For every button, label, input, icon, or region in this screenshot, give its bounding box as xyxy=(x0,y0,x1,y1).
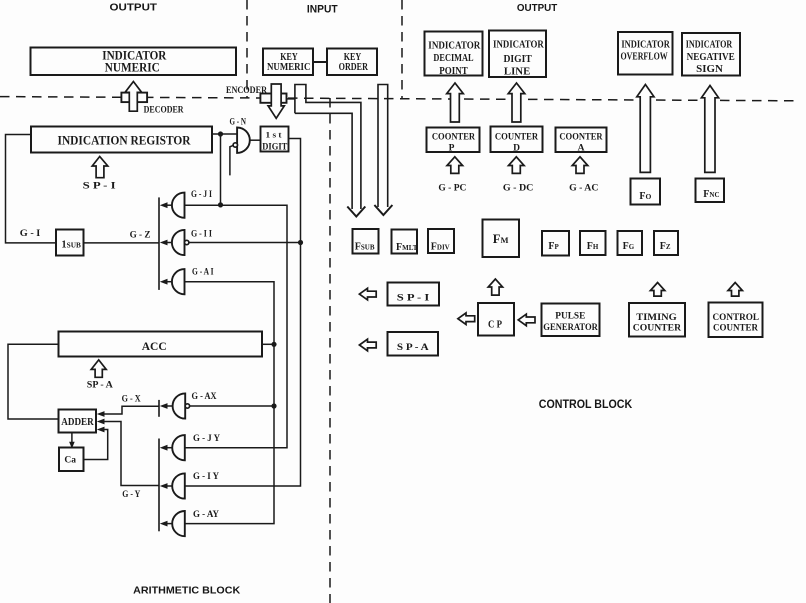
decoder arrow xyxy=(125,82,142,112)
wire KEY NUMERIC to KEY ORDER xyxy=(313,61,327,63)
box INDICATOR OVERFLOW xyxy=(618,32,673,75)
svg-text:G - J Y: G - J Y xyxy=(193,433,220,443)
box INDICATION REGISTOR xyxy=(31,127,212,153)
svg-text:S P - I: S P - I xyxy=(397,294,430,304)
svg-text:ACC: ACC xyxy=(142,339,167,353)
wire G-Z xyxy=(84,242,160,244)
bus X vertical xyxy=(158,400,160,417)
gate G-AX xyxy=(173,393,186,418)
svg-text:SP - A: SP - A xyxy=(87,380,114,390)
wire G-AI output arrow xyxy=(166,281,172,283)
svg-text:SIGN: SIGN xyxy=(696,64,724,75)
bubble G-II input xyxy=(185,240,189,244)
wire G-N output to 1st DIGIT xyxy=(250,139,261,141)
box PULSE GENERATOR xyxy=(542,304,600,337)
svg-text:INPUT: INPUT xyxy=(307,3,338,15)
box SP-I xyxy=(388,283,440,306)
svg-text:Ca: Ca xyxy=(64,455,76,465)
arrow G-DC (small hollow up) xyxy=(509,157,525,174)
svg-text:G - A I: G - A I xyxy=(192,267,214,277)
box SP-A xyxy=(388,332,439,356)
wire G-AY output arrow xyxy=(166,523,172,525)
bus I vertical xyxy=(158,197,160,290)
svg-text:FM: FM xyxy=(493,232,509,246)
svg-text:G - I: G - I xyxy=(20,228,41,238)
wire 1st DIGIT output vertical xyxy=(185,139,301,487)
svg-text:FNC: FNC xyxy=(703,189,719,200)
box KEY ORDER xyxy=(327,49,377,76)
wire G-X xyxy=(104,406,160,414)
wire register output to G-N xyxy=(212,133,237,135)
svg-text:LINE: LINE xyxy=(504,67,531,78)
box 1st DIGIT xyxy=(261,127,289,152)
svg-text:C P: C P xyxy=(488,319,502,330)
svg-text:DECIMAL: DECIMAL xyxy=(433,53,473,64)
svg-text:G - X: G - X xyxy=(122,394,141,404)
arrow counter P to indicator (hollow) xyxy=(447,83,464,122)
svg-text:P: P xyxy=(449,143,455,153)
box FSUB xyxy=(353,229,379,254)
box Ca xyxy=(59,448,84,472)
svg-text:COONTER: COONTER xyxy=(432,133,475,143)
box FMLT xyxy=(392,230,418,254)
svg-text:OVERFLOW: OVERFLOW xyxy=(621,51,668,62)
box COUNTER D xyxy=(491,127,543,153)
svg-text:INDICATOR: INDICATOR xyxy=(686,40,733,51)
svg-text:DIGIT: DIGIT xyxy=(262,143,288,153)
box FG xyxy=(618,231,643,255)
box INDICATOR NUMERIC xyxy=(31,48,237,76)
node G-II/digit xyxy=(298,240,303,245)
box COONTER A xyxy=(556,128,607,153)
stub G-N lower input xyxy=(230,146,233,176)
svg-text:NUMERIC: NUMERIC xyxy=(267,62,310,73)
encoder box xyxy=(260,94,286,103)
svg-text:G - Z: G - Z xyxy=(130,230,151,240)
node at G-JI line xyxy=(218,202,223,207)
svg-text:DIGIT: DIGIT xyxy=(503,54,532,65)
wire G-II input xyxy=(189,242,301,244)
svg-text:D: D xyxy=(513,143,520,153)
svg-text:ARITHMETIC BLOCK: ARITHMETIC BLOCK xyxy=(133,585,240,597)
svg-text:FSUB: FSUB xyxy=(355,241,375,252)
svg-text:COUNTER: COUNTER xyxy=(495,133,538,143)
wire G-II output arrow xyxy=(166,242,172,244)
dashed vertical divider center (x=330) xyxy=(329,98,331,603)
svg-text:OUTPUT: OUTPUT xyxy=(517,2,558,14)
svg-text:FG: FG xyxy=(623,241,635,252)
gate G-N xyxy=(237,128,250,153)
box KEY NUMERIC xyxy=(263,49,313,76)
wire ACC feedback to ADDER xyxy=(8,344,59,419)
box 1SUB xyxy=(56,230,84,256)
svg-text:FDIV: FDIV xyxy=(431,241,450,252)
wire Ca loop to ADDER xyxy=(84,430,108,460)
svg-text:COONTER: COONTER xyxy=(559,133,602,143)
svg-text:COUNTER: COUNTER xyxy=(713,324,758,334)
bubble G-AX input xyxy=(185,404,189,408)
arrow FNC to negative sign (long hollow) xyxy=(701,86,718,173)
arrow right of CP xyxy=(518,314,535,326)
svg-text:1 s t: 1 s t xyxy=(266,130,282,140)
node register output xyxy=(218,131,223,136)
svg-text:G - I I: G - I I xyxy=(191,228,212,238)
wire G-Y xyxy=(104,422,160,486)
gate G-AY xyxy=(172,511,185,536)
gate G-JY xyxy=(172,435,185,460)
arrow left of CP xyxy=(458,313,475,325)
box FP xyxy=(542,231,569,256)
wire G-IY output arrow xyxy=(166,485,172,487)
arrowhead FSUB xyxy=(347,207,365,217)
box FZ xyxy=(654,231,678,255)
svg-text:CONTROL BLOCK: CONTROL BLOCK xyxy=(539,399,633,411)
gate G-II xyxy=(172,230,185,255)
svg-text:G - PC: G - PC xyxy=(438,182,466,192)
arrow SP-A (up, hollow) xyxy=(91,360,106,377)
gate G-IY xyxy=(172,473,185,498)
decoder box xyxy=(121,93,147,103)
arrow G-PC (small hollow up) xyxy=(447,157,463,174)
wire G-JY output arrow xyxy=(166,447,172,449)
svg-text:TIMING: TIMING xyxy=(636,313,677,323)
wire G-JI output arrow xyxy=(166,204,172,206)
box INDICATOR DIGIT LINE xyxy=(489,31,546,78)
wire G-AX output arrow xyxy=(166,405,173,407)
box CONTROL COUNTER xyxy=(709,303,763,338)
svg-text:INDICATOR: INDICATOR xyxy=(428,40,481,51)
svg-text:DECODER: DECODER xyxy=(144,105,184,115)
arrow counter D to indicator (hollow) xyxy=(508,83,525,122)
svg-text:G - AC: G - AC xyxy=(569,182,598,192)
dashed vertical divider left (x=247) xyxy=(246,0,248,98)
node ACC right xyxy=(271,342,276,347)
dashed vertical divider right (x=402) xyxy=(401,0,403,98)
arrow SP-I (up, hollow) xyxy=(92,157,108,178)
svg-text:A: A xyxy=(578,143,585,153)
wire G-AX input xyxy=(190,405,274,407)
svg-text:G - AY: G - AY xyxy=(193,509,219,519)
box INDICATOR DECIMAL POINT xyxy=(425,32,483,76)
svg-text:S P - A: S P - A xyxy=(397,343,429,353)
gate G-AI xyxy=(172,269,185,294)
svg-text:FH: FH xyxy=(587,241,599,252)
bus KEY ORDER-FMLT hollow xyxy=(378,85,388,208)
svg-text:INDICATOR: INDICATOR xyxy=(621,39,670,50)
svg-text:G - J I: G - J I xyxy=(191,189,212,199)
arrowhead FMLT xyxy=(374,205,392,215)
svg-text:ADDER: ADDER xyxy=(61,417,94,428)
wire encoder to FSUB bus xyxy=(287,98,295,100)
arrow above CP (small hollow up) xyxy=(488,279,502,295)
arrow left of SP-A xyxy=(359,339,376,351)
svg-text:OUTPUT: OUTPUT xyxy=(110,1,158,13)
wire register out vertical xyxy=(220,134,222,205)
wire G-AI input / vertical to G-AY xyxy=(185,282,275,524)
box INDICATOR NEGATIVE SIGN xyxy=(682,33,740,76)
box FDIV xyxy=(428,229,454,253)
svg-text:POINT: POINT xyxy=(439,66,468,77)
svg-text:G - I Y: G - I Y xyxy=(193,471,219,481)
box CP xyxy=(478,303,514,336)
svg-text:G - N: G - N xyxy=(230,117,247,127)
svg-text:CONTROL: CONTROL xyxy=(713,313,760,323)
dashed horizontal divider y=98 xyxy=(0,97,796,101)
box COONTER P xyxy=(427,128,480,153)
arrow Fo to overflow (long hollow) xyxy=(637,85,654,173)
svg-text:NEGATIVE: NEGATIVE xyxy=(687,52,735,63)
arrow above TIMING COUNTER xyxy=(650,283,664,297)
svg-text:INDICATOR: INDICATOR xyxy=(493,40,544,51)
wire register feedback G-I xyxy=(6,135,57,243)
svg-text:S P - I: S P - I xyxy=(83,181,117,191)
encoder arrow (down) xyxy=(268,84,284,118)
bus Y vertical xyxy=(158,439,160,532)
svg-text:ORDER: ORDER xyxy=(339,62,369,73)
arrow above CONTROL COUNTER xyxy=(728,283,742,297)
wire ACC right to bus xyxy=(262,343,274,345)
svg-text:1SUB: 1SUB xyxy=(61,240,81,251)
svg-text:G - AX: G - AX xyxy=(192,391,217,401)
svg-text:INDICATION REGISTOR: INDICATION REGISTOR xyxy=(58,132,192,147)
svg-text:FO: FO xyxy=(639,191,651,202)
box FNC xyxy=(696,179,725,203)
svg-text:FP: FP xyxy=(548,241,559,252)
box Fo xyxy=(631,179,661,205)
node G-AX vertical xyxy=(271,403,276,408)
wire G-JI input to G-JY xyxy=(185,205,288,448)
svg-text:PULSE: PULSE xyxy=(555,311,585,321)
arrow left of SP-I xyxy=(359,288,376,300)
gate G-JI xyxy=(172,193,185,218)
svg-text:FMLT: FMLT xyxy=(396,242,418,253)
bus encoder-FSUB hollow xyxy=(295,85,361,210)
svg-text:FZ: FZ xyxy=(660,241,671,252)
arrow ADDER to Ca xyxy=(71,433,73,445)
svg-text:COUNTER: COUNTER xyxy=(633,323,681,333)
svg-text:NUMERIC: NUMERIC xyxy=(105,60,160,74)
box FH xyxy=(580,231,606,255)
box ACC xyxy=(59,332,263,357)
svg-text:G - Y: G - Y xyxy=(122,489,140,499)
arrow G-AC (small hollow up) xyxy=(572,157,588,174)
box TIMING COUNTER xyxy=(629,303,685,337)
svg-text:GENERATOR: GENERATOR xyxy=(543,323,598,333)
svg-text:G - DC: G - DC xyxy=(503,182,534,192)
bubble G-N input xyxy=(233,143,237,147)
box ADDER xyxy=(59,410,97,433)
box FM xyxy=(483,220,520,258)
